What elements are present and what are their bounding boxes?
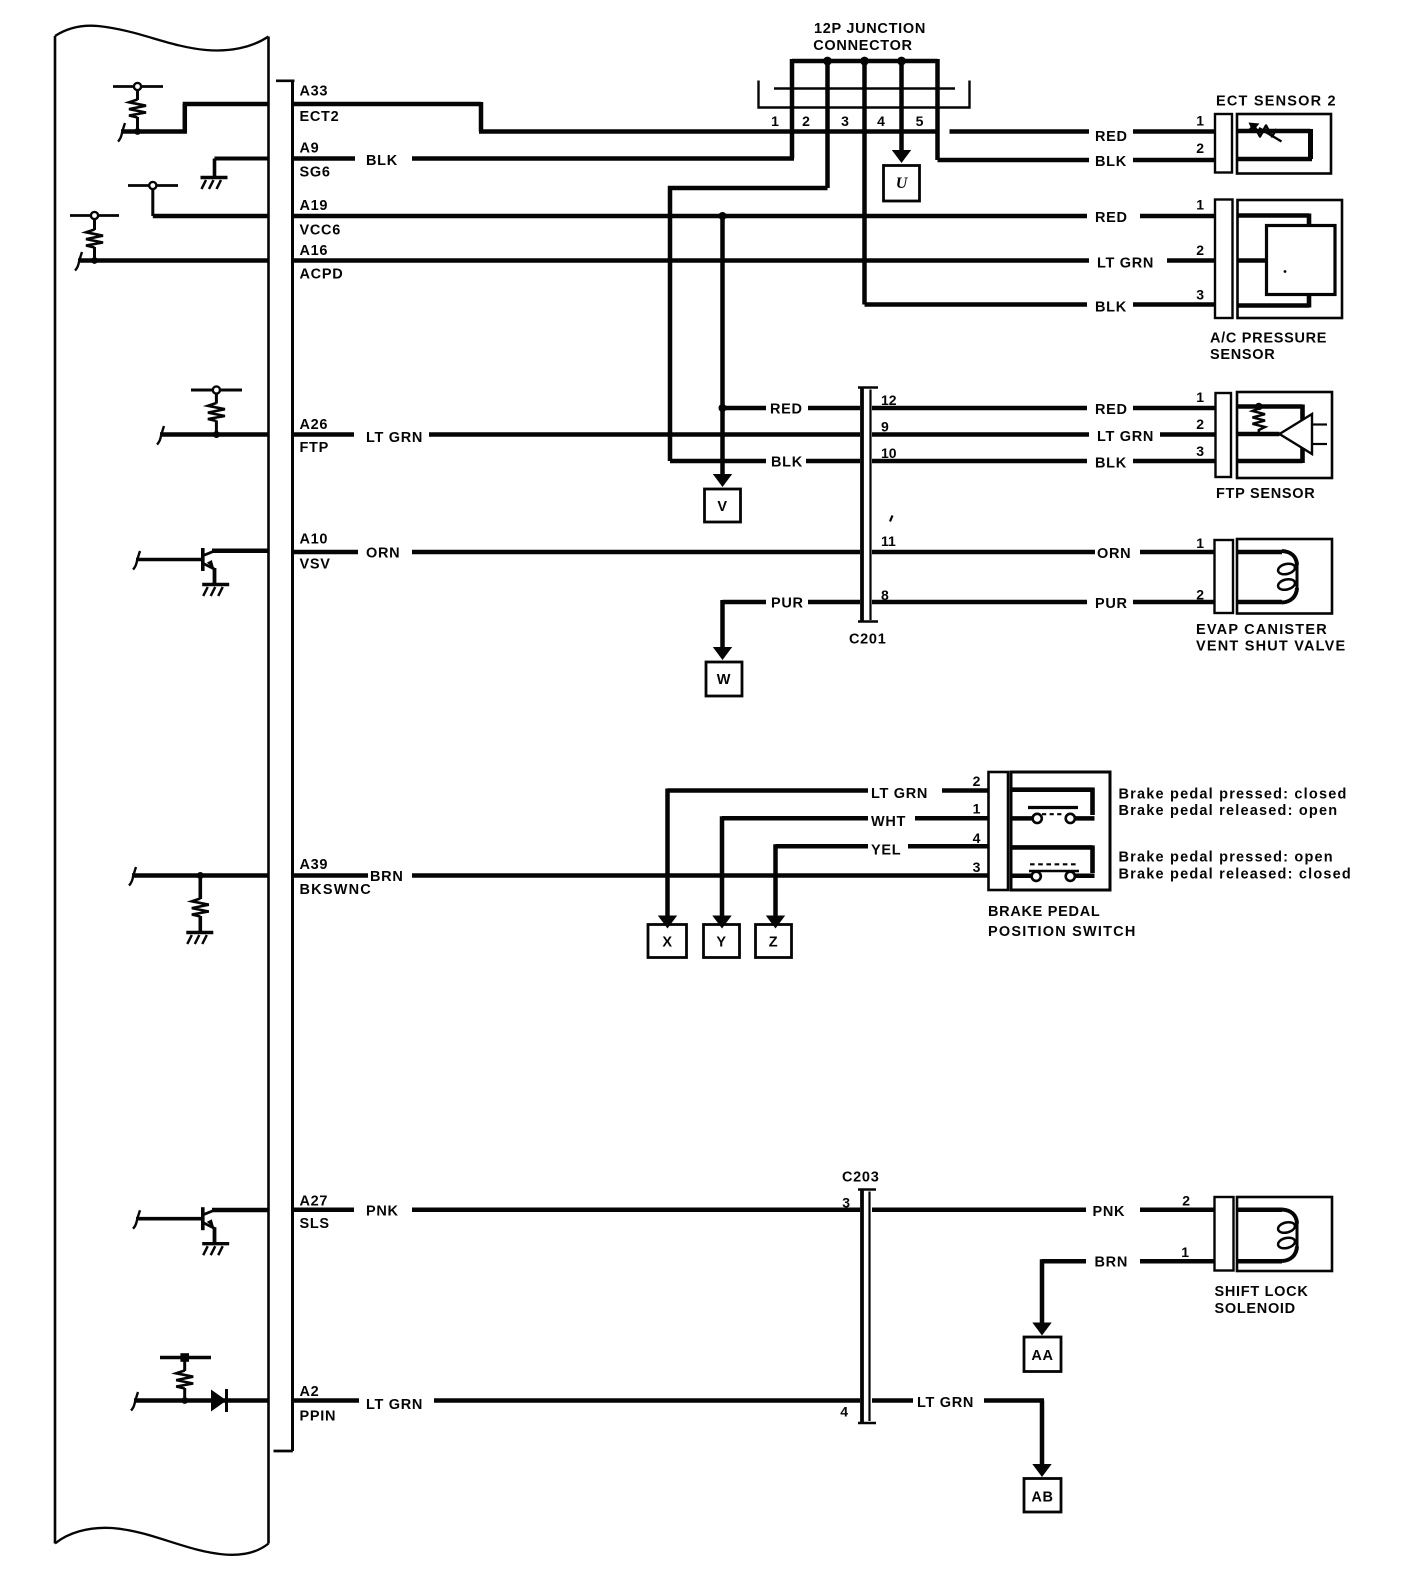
svg-text:AA: AA: [1031, 1348, 1053, 1364]
svg-text:EVAP CANISTER: EVAP CANISTER: [1196, 622, 1328, 638]
svg-text:SLS: SLS: [300, 1216, 330, 1232]
svg-text:12: 12: [881, 392, 897, 408]
svg-text:PNK: PNK: [1093, 1204, 1126, 1220]
svg-text:2: 2: [973, 773, 981, 789]
svg-text:Brake pedal pressed: closed: Brake pedal pressed: closed: [1119, 787, 1348, 803]
svg-text:Brake pedal released: open: Brake pedal released: open: [1119, 803, 1339, 819]
svg-text:ORN: ORN: [1097, 546, 1131, 562]
svg-text:PUR: PUR: [1095, 596, 1128, 612]
svg-text:3: 3: [1196, 443, 1204, 459]
svg-text:A2: A2: [300, 1384, 320, 1400]
svg-text:A9: A9: [300, 141, 320, 157]
svg-text:BLK: BLK: [366, 153, 398, 169]
svg-text:A19: A19: [300, 198, 329, 214]
svg-text:4: 4: [973, 830, 981, 846]
svg-text:BRAKE PEDAL: BRAKE PEDAL: [988, 904, 1100, 920]
svg-text:3: 3: [973, 859, 981, 875]
svg-text:LT GRN: LT GRN: [366, 430, 423, 446]
svg-text:ECT2: ECT2: [300, 109, 340, 125]
svg-text:4: 4: [840, 1404, 848, 1420]
svg-text:BLK: BLK: [771, 455, 803, 471]
svg-text:VSV: VSV: [300, 557, 331, 573]
svg-text:9: 9: [881, 419, 889, 435]
svg-text:2: 2: [1196, 140, 1204, 156]
svg-text:1: 1: [771, 113, 779, 129]
svg-text:8: 8: [881, 587, 889, 603]
svg-text:CONNECTOR: CONNECTOR: [813, 38, 912, 54]
svg-text:5: 5: [916, 113, 924, 129]
svg-text:BRN: BRN: [1095, 1255, 1129, 1271]
svg-text:BLK: BLK: [1095, 154, 1127, 170]
svg-text:SOLENOID: SOLENOID: [1215, 1301, 1296, 1317]
svg-text:A26: A26: [300, 417, 329, 433]
svg-text:10: 10: [881, 445, 897, 461]
svg-text:Z: Z: [769, 935, 779, 951]
svg-text:Brake pedal released: closed: Brake pedal released: closed: [1119, 867, 1352, 883]
svg-text:3: 3: [841, 113, 849, 129]
svg-text:BLK: BLK: [1095, 456, 1127, 472]
svg-text:FTP SENSOR: FTP SENSOR: [1216, 486, 1315, 502]
svg-text:12P JUNCTION: 12P JUNCTION: [814, 21, 926, 37]
svg-text:A39: A39: [300, 857, 329, 873]
svg-text:RED: RED: [1095, 129, 1128, 145]
svg-text:3: 3: [1196, 287, 1204, 303]
svg-text:X: X: [662, 935, 672, 951]
svg-text:1: 1: [1181, 1244, 1189, 1260]
svg-text:LT GRN: LT GRN: [1097, 429, 1154, 445]
svg-text:BKSWNC: BKSWNC: [300, 882, 372, 898]
svg-text:ORN: ORN: [366, 546, 400, 562]
svg-text:2: 2: [1196, 416, 1204, 432]
svg-text:C201: C201: [849, 632, 886, 648]
svg-text:2: 2: [1182, 1193, 1190, 1209]
svg-text:A27: A27: [300, 1194, 329, 1210]
svg-text:3: 3: [842, 1195, 850, 1211]
svg-text:AB: AB: [1031, 1490, 1053, 1506]
svg-text:RED: RED: [770, 402, 803, 418]
svg-text:SG6: SG6: [300, 165, 331, 181]
svg-text:4: 4: [877, 113, 885, 129]
svg-text:A/C PRESSURE: A/C PRESSURE: [1210, 331, 1327, 347]
svg-text:LT GRN: LT GRN: [917, 1395, 974, 1411]
svg-text:2: 2: [802, 113, 810, 129]
svg-text:LT GRN: LT GRN: [366, 1397, 423, 1413]
svg-text:ACPD: ACPD: [300, 267, 344, 283]
svg-text:PUR: PUR: [771, 596, 804, 612]
svg-text:Y: Y: [716, 935, 726, 951]
svg-text:11: 11: [881, 533, 896, 549]
svg-text:A33: A33: [300, 84, 329, 100]
svg-text:U: U: [896, 175, 909, 192]
svg-text:RED: RED: [1095, 210, 1128, 226]
svg-text:PPIN: PPIN: [300, 1409, 337, 1425]
svg-text:A10: A10: [300, 532, 329, 548]
svg-text:RED: RED: [1095, 402, 1128, 418]
svg-text:VENT SHUT VALVE: VENT SHUT VALVE: [1196, 639, 1346, 655]
svg-text:2: 2: [1196, 242, 1204, 258]
svg-text:BLK: BLK: [1095, 300, 1127, 316]
svg-text:Brake pedal pressed: open: Brake pedal pressed: open: [1119, 850, 1334, 866]
svg-text:1: 1: [1196, 535, 1204, 551]
svg-text:LT GRN: LT GRN: [1097, 256, 1154, 272]
svg-text:1: 1: [973, 801, 981, 817]
svg-text:A16: A16: [300, 243, 329, 259]
svg-text:2: 2: [1196, 587, 1204, 603]
svg-text:1: 1: [1196, 389, 1204, 405]
svg-text:SHIFT LOCK: SHIFT LOCK: [1215, 1284, 1309, 1300]
svg-text:VCC6: VCC6: [300, 223, 341, 239]
svg-text:W: W: [717, 672, 731, 688]
svg-text:YEL: YEL: [871, 843, 901, 859]
svg-text:PNK: PNK: [366, 1204, 399, 1220]
svg-text:SENSOR: SENSOR: [1210, 347, 1275, 363]
svg-text:1: 1: [1196, 113, 1204, 129]
svg-text:POSITION SWITCH: POSITION SWITCH: [988, 924, 1137, 940]
svg-text:V: V: [717, 499, 727, 515]
svg-text:WHT: WHT: [871, 814, 906, 830]
svg-text:1: 1: [1196, 197, 1204, 213]
svg-text:BRN: BRN: [370, 869, 404, 885]
svg-text:LT GRN: LT GRN: [871, 786, 928, 802]
svg-text:ECT SENSOR 2: ECT SENSOR 2: [1216, 94, 1337, 110]
svg-text:C203: C203: [842, 1170, 879, 1186]
svg-text:FTP: FTP: [300, 440, 330, 456]
